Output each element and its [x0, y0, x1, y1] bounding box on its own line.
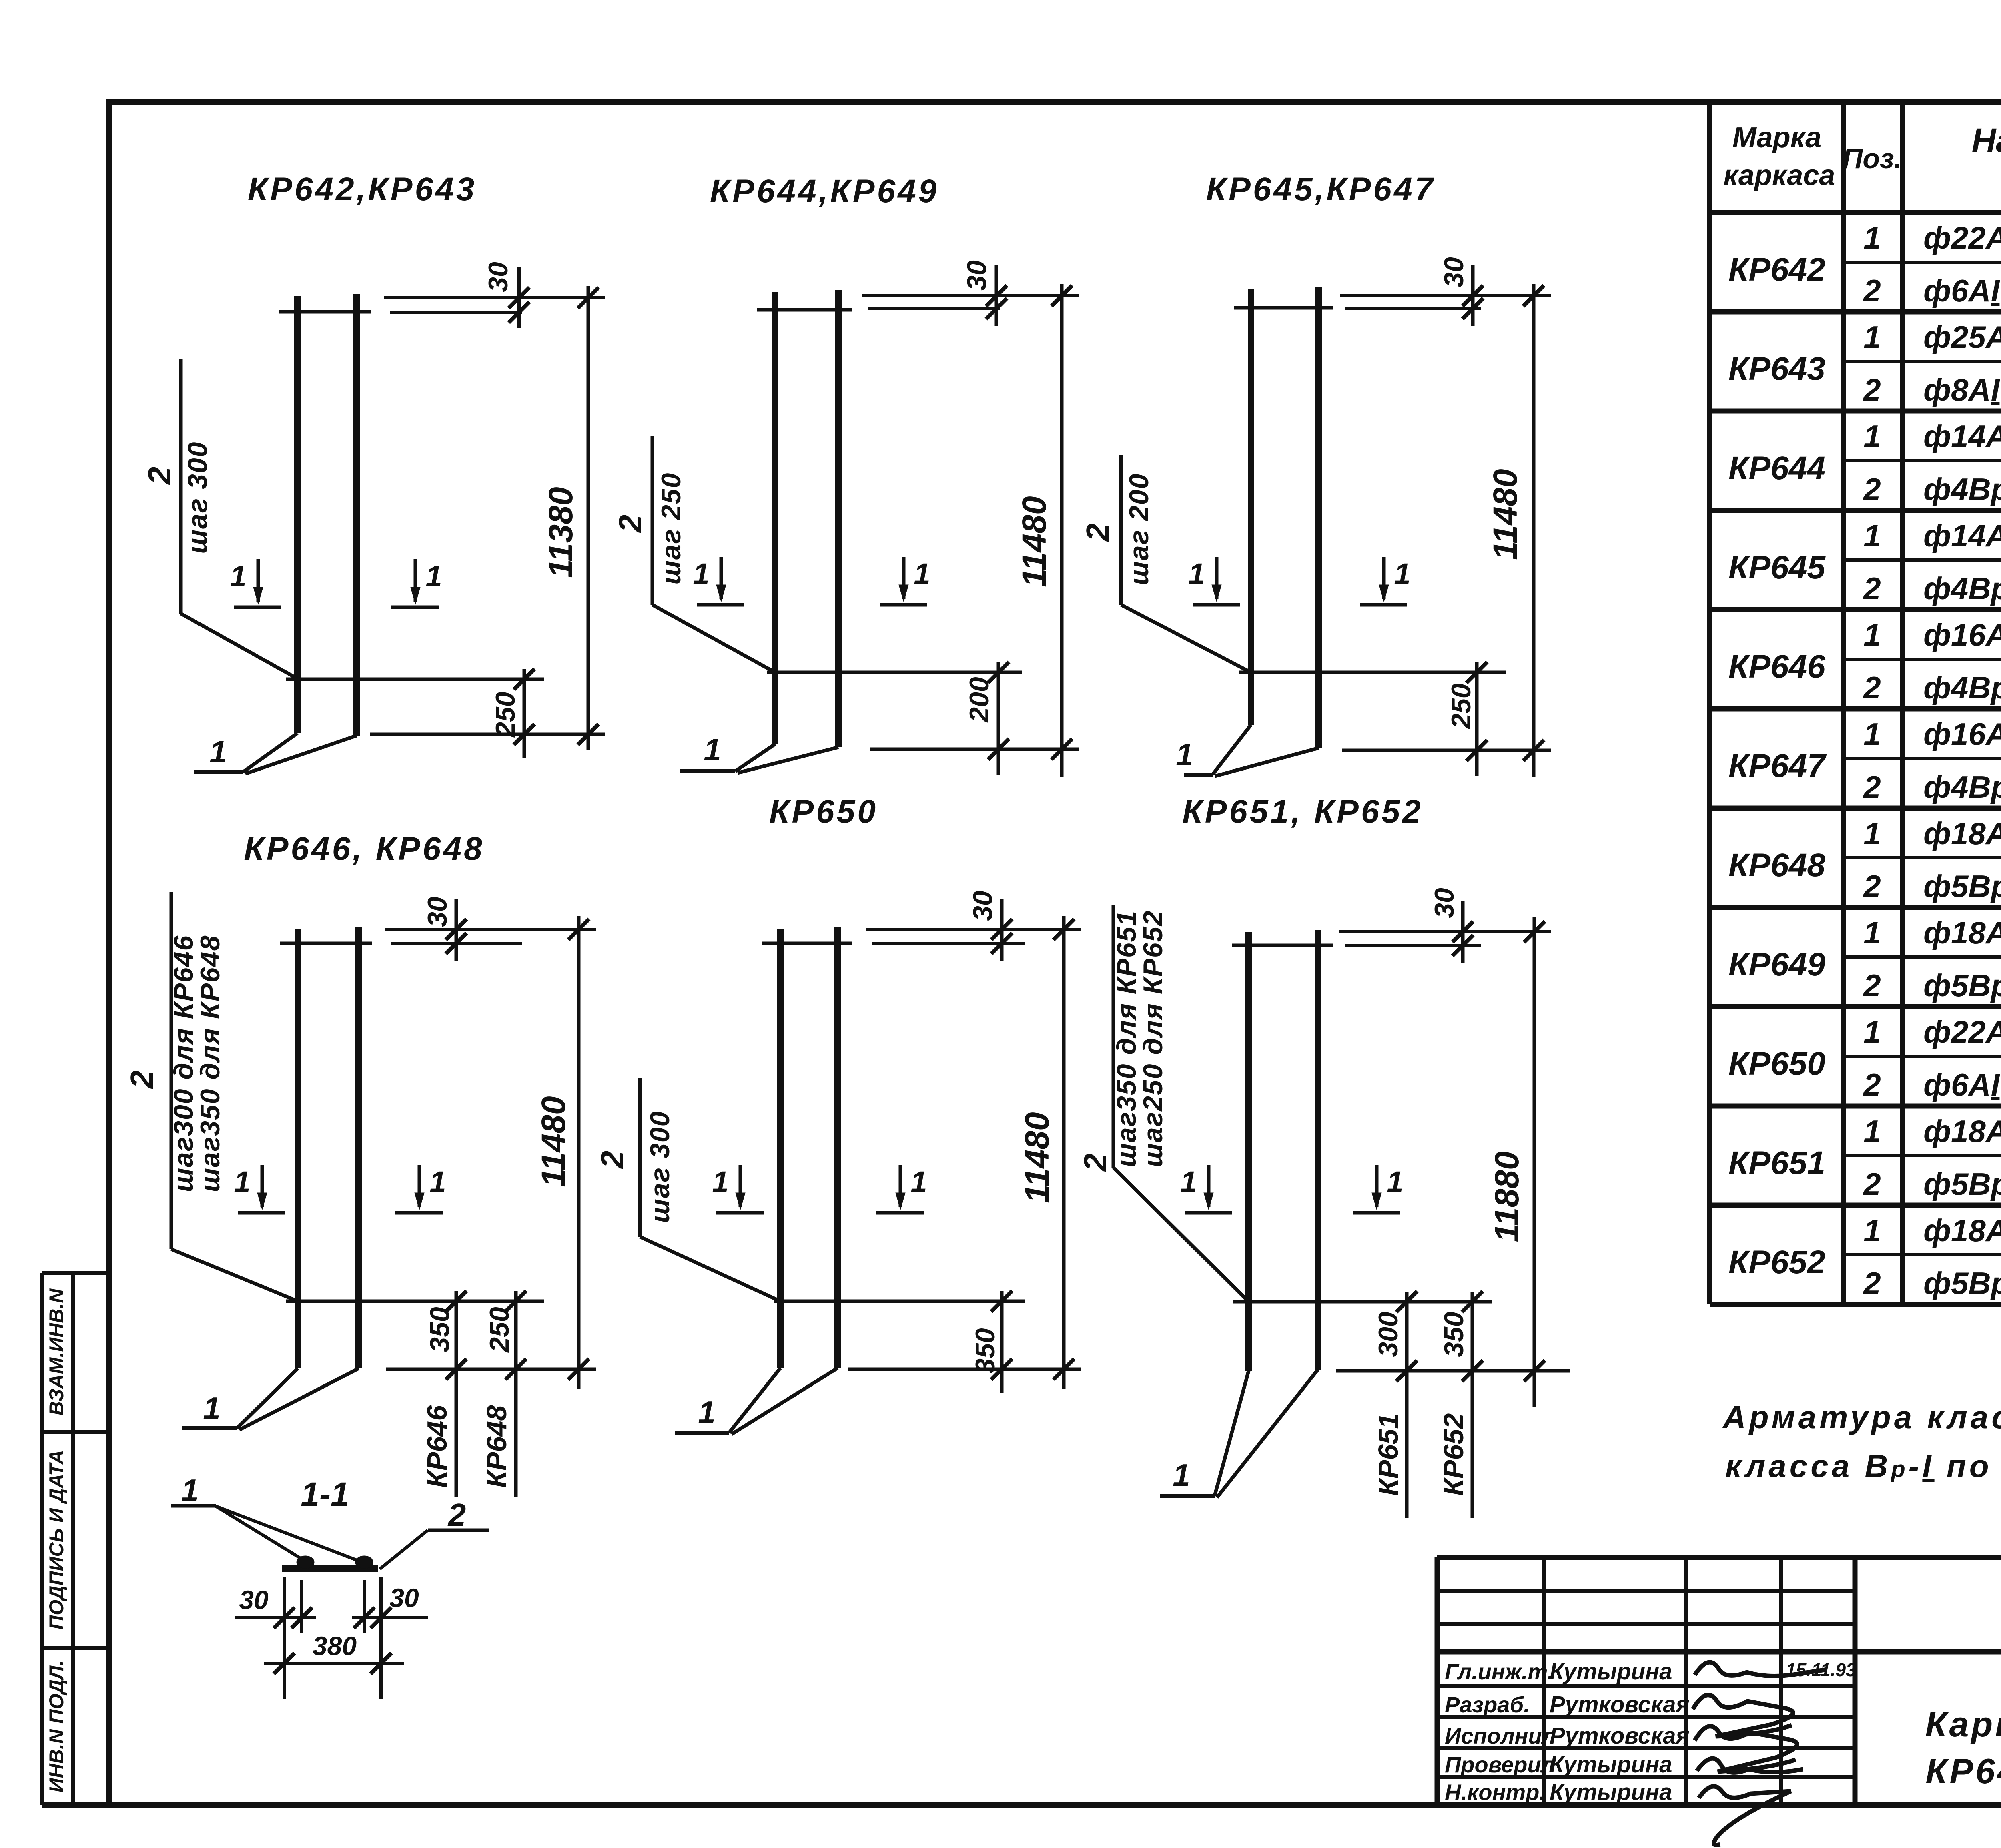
svg-text:350: 350: [970, 1328, 1000, 1374]
svg-text:1: 1: [1863, 319, 1881, 355]
svg-text:шаг 300: шаг 300: [182, 441, 213, 554]
svg-text:1: 1: [1176, 737, 1193, 772]
svg-text:шаг350 для КР648: шаг350 для КР648: [195, 935, 225, 1192]
svg-text:11480: 11480: [1015, 496, 1053, 587]
svg-text:Каркас плоский: Каркас плоский: [1925, 1704, 2001, 1744]
svg-text:250: 250: [1446, 683, 1476, 730]
svg-text:1: 1: [704, 732, 721, 767]
svg-text:КР644: КР644: [1728, 450, 1825, 486]
svg-text:Наименование: Наименование: [1972, 122, 2001, 159]
svg-text:30: 30: [968, 891, 998, 921]
svg-text:ф4ВрI ℓ=380: ф4ВрI ℓ=380: [1923, 571, 2001, 606]
svg-text:Рутковская: Рутковская: [1550, 1723, 1690, 1749]
svg-text:2: 2: [1863, 472, 1881, 507]
svg-text:Кутырина: Кутырина: [1550, 1752, 1672, 1778]
svg-text:шаг250 для КР652: шаг250 для КР652: [1138, 910, 1168, 1168]
svg-text:шаг350 для КР651: шаг350 для КР651: [1111, 910, 1142, 1168]
svg-text:350: 350: [1439, 1312, 1469, 1357]
svg-text:КР648: КР648: [1728, 847, 1825, 883]
svg-text:2: 2: [1863, 670, 1881, 705]
svg-text:шаг 200: шаг 200: [1124, 473, 1154, 586]
svg-text:ИНВ.N ПОДЛ.: ИНВ.N ПОДЛ.: [45, 1660, 68, 1793]
svg-text:Поз.: Поз.: [1843, 143, 1902, 174]
svg-text:1: 1: [1863, 518, 1881, 553]
svg-text:1: 1: [1863, 816, 1881, 851]
svg-text:1: 1: [1180, 1165, 1197, 1198]
svg-text:300: 300: [1373, 1312, 1404, 1357]
svg-text:30: 30: [962, 260, 992, 291]
svg-text:1: 1: [1863, 419, 1881, 454]
svg-text:ф18АШ ℓ=11480: ф18АШ ℓ=11480: [1923, 915, 2001, 950]
svg-text:шаг 250: шаг 250: [656, 472, 686, 585]
svg-text:1: 1: [914, 557, 930, 590]
svg-text:ф22АШ ℓ=11380: ф22АШ ℓ=11380: [1923, 220, 2001, 255]
svg-text:ф4ВрI ℓ=380: ф4ВрI ℓ=380: [1923, 769, 2001, 805]
svg-text:КР646, КР648: КР646, КР648: [244, 831, 484, 867]
svg-text:2: 2: [1077, 1154, 1113, 1172]
svg-text:2: 2: [1863, 869, 1881, 904]
svg-text:ф22АШ ℓ=11480: ф22АШ ℓ=11480: [1923, 1014, 2001, 1049]
svg-text:КР642: КР642: [1728, 251, 1825, 288]
svg-text:Кутырина: Кутырина: [1550, 1779, 1672, 1805]
svg-text:11380: 11380: [542, 487, 579, 578]
svg-text:КР643: КР643: [1728, 351, 1825, 387]
svg-text:1: 1: [1387, 1165, 1403, 1198]
svg-text:11880: 11880: [1488, 1151, 1526, 1242]
svg-text:1: 1: [429, 1165, 446, 1198]
svg-text:1: 1: [1863, 1014, 1881, 1049]
svg-text:30: 30: [1429, 888, 1460, 918]
svg-text:КР644,КР649: КР644,КР649: [710, 173, 939, 209]
svg-text:КР652: КР652: [1438, 1413, 1469, 1496]
svg-text:2: 2: [1863, 769, 1881, 805]
svg-text:1: 1: [1863, 1114, 1881, 1149]
svg-text:1: 1: [1173, 1457, 1190, 1493]
svg-text:2: 2: [1863, 273, 1881, 308]
svg-text:380: 380: [313, 1631, 357, 1661]
svg-text:30: 30: [389, 1583, 419, 1613]
svg-text:шаг300 для КР646: шаг300 для КР646: [168, 935, 199, 1192]
svg-text:Кутырина: Кутырина: [1550, 1659, 1672, 1685]
svg-text:ф14АШ ℓ=11480: ф14АШ ℓ=11480: [1923, 419, 2001, 454]
svg-text:2: 2: [447, 1497, 466, 1533]
svg-text:350: 350: [425, 1307, 455, 1352]
svg-text:КР651, КР652: КР651, КР652: [1182, 793, 1423, 830]
svg-text:ф5ВрI ℓ=380: ф5ВрI ℓ=380: [1923, 1266, 2001, 1301]
svg-text:ф25АШ ℓ=11380: ф25АШ ℓ=11380: [1923, 319, 2001, 355]
svg-text:2: 2: [1863, 1166, 1881, 1202]
svg-text:1: 1: [1863, 915, 1881, 950]
svg-text:КР649: КР649: [1728, 946, 1825, 983]
svg-text:Рутковская: Рутковская: [1550, 1691, 1690, 1718]
svg-text:КР645,КР647: КР645,КР647: [1206, 171, 1436, 207]
svg-text:ф16АШ ℓ=11480: ф16АШ ℓ=11480: [1923, 617, 2001, 652]
svg-text:ф14АШ ℓ=11480: ф14АШ ℓ=11480: [1923, 518, 2001, 553]
svg-text:Н.контр.: Н.контр.: [1445, 1780, 1546, 1805]
svg-text:1: 1: [209, 734, 227, 769]
svg-text:1: 1: [203, 1391, 220, 1426]
svg-text:1: 1: [1863, 716, 1881, 752]
svg-text:11480: 11480: [535, 1096, 572, 1187]
svg-text:ф18АШ ℓ=11480: ф18АШ ℓ=11480: [1923, 816, 2001, 851]
svg-text:11480: 11480: [1018, 1112, 1056, 1203]
svg-text:11480: 11480: [1486, 469, 1524, 560]
svg-text:2: 2: [1863, 1266, 1881, 1301]
svg-text:1: 1: [234, 1165, 250, 1198]
svg-text:1: 1: [181, 1473, 198, 1508]
svg-text:ф18АШ ℓ=11880: ф18АШ ℓ=11880: [1923, 1213, 2001, 1248]
svg-text:КР646: КР646: [1728, 648, 1826, 685]
svg-text:КР647: КР647: [1728, 748, 1827, 784]
svg-text:ф5ВрI ℓ=380: ф5ВрI ℓ=380: [1923, 968, 2001, 1003]
svg-text:250: 250: [484, 1307, 515, 1353]
svg-text:200: 200: [964, 677, 994, 723]
svg-text:1: 1: [230, 560, 246, 593]
svg-text:класса Вр-I по ГОСТ6727-80: класса Вр-I по ГОСТ6727-80: [1725, 1448, 2001, 1484]
svg-text:Разраб.: Разраб.: [1445, 1692, 1530, 1717]
svg-text:1: 1: [698, 1395, 715, 1430]
svg-text:ф5ВрI ℓ=380: ф5ВрI ℓ=380: [1923, 1166, 2001, 1202]
svg-text:КР642,КР643: КР642,КР643: [248, 171, 477, 207]
svg-text:1: 1: [1863, 1213, 1881, 1248]
svg-text:ф5ВрI ℓ=380: ф5ВрI ℓ=380: [1923, 869, 2001, 904]
svg-text:30: 30: [239, 1585, 269, 1615]
svg-text:Гл.инж.т.: Гл.инж.т.: [1445, 1659, 1554, 1684]
svg-text:1: 1: [1394, 557, 1410, 590]
svg-text:Марка: Марка: [1732, 122, 1821, 154]
svg-text:1: 1: [1188, 557, 1205, 590]
svg-text:КР642 ... КР652: КР642 ... КР652: [1925, 1751, 2001, 1791]
svg-text:1: 1: [1863, 220, 1881, 255]
svg-text:2: 2: [1863, 571, 1881, 606]
svg-text:Проверил: Проверил: [1445, 1752, 1555, 1777]
svg-text:ф6АI ℓ=380: ф6АI ℓ=380: [1923, 1067, 2001, 1102]
svg-text:Арматура класса А-Ш и А-I по Г: Арматура класса А-Ш и А-I по ГОСТ5781-82…: [1722, 1399, 2001, 1435]
svg-text:1: 1: [1863, 617, 1881, 652]
svg-text:КР651: КР651: [1728, 1145, 1825, 1181]
svg-text:КР645: КР645: [1728, 549, 1826, 586]
svg-text:ф4ВрI ℓ=380: ф4ВрI ℓ=380: [1923, 670, 2001, 705]
svg-text:250: 250: [490, 692, 521, 738]
svg-text:1-1: 1-1: [301, 1475, 349, 1513]
svg-text:15.11.93: 15.11.93: [1786, 1659, 1856, 1680]
svg-text:каркаса: каркаса: [1724, 159, 1835, 191]
svg-text:2: 2: [1863, 372, 1881, 407]
svg-text:ф6АI ℓ=380: ф6АI ℓ=380: [1923, 273, 2001, 308]
svg-text:ф18АШ ℓ=11880: ф18АШ ℓ=11880: [1923, 1114, 2001, 1149]
svg-text:шаг 300: шаг 300: [645, 1111, 675, 1223]
svg-text:ВЗАМ.ИНВ.N: ВЗАМ.ИНВ.N: [45, 1288, 68, 1416]
svg-text:КР650: КР650: [769, 793, 878, 830]
svg-text:КР651: КР651: [1373, 1413, 1404, 1496]
svg-text:2: 2: [1863, 1067, 1881, 1102]
svg-text:30: 30: [422, 897, 453, 927]
svg-text:ф4ВрI ℓ=380: ф4ВрI ℓ=380: [1923, 472, 2001, 507]
svg-text:1: 1: [693, 557, 709, 590]
svg-text:ф8АI ℓ=380: ф8АI ℓ=380: [1923, 372, 2001, 407]
svg-text:КР648: КР648: [481, 1405, 512, 1488]
svg-text:2: 2: [142, 467, 177, 486]
svg-text:Исполнил: Исполнил: [1445, 1723, 1556, 1748]
svg-text:2: 2: [1080, 524, 1115, 542]
svg-text:1: 1: [425, 560, 442, 593]
svg-text:КР650: КР650: [1728, 1045, 1825, 1082]
svg-text:2: 2: [594, 1151, 630, 1170]
svg-text:КР646: КР646: [421, 1405, 453, 1488]
svg-text:2: 2: [124, 1071, 160, 1090]
svg-text:30: 30: [1439, 257, 1469, 287]
svg-text:2: 2: [612, 515, 648, 534]
svg-text:ф16АШ ℓ=11480: ф16АШ ℓ=11480: [1923, 716, 2001, 752]
svg-text:КР652: КР652: [1728, 1244, 1825, 1280]
svg-text:30: 30: [483, 262, 513, 292]
svg-text:1: 1: [910, 1165, 927, 1198]
svg-text:ПОДПИСЬ И ДАТА: ПОДПИСЬ И ДАТА: [45, 1450, 68, 1629]
svg-text:1: 1: [712, 1165, 728, 1198]
svg-text:2: 2: [1863, 968, 1881, 1003]
